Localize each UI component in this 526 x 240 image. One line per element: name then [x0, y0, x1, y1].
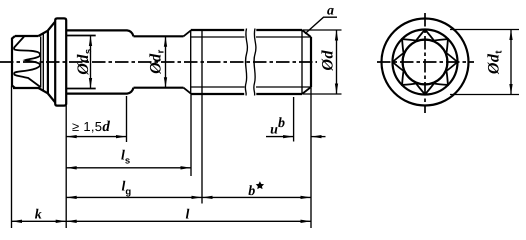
reduced shank dr bottom line [134, 87, 184, 89]
flange base edge [47, 31, 49, 94]
dimension dr [165, 36, 167, 87]
centerline side view [0, 61, 317, 63]
cone intermediate line [42, 34, 44, 91]
dimension ls [66, 167, 191, 169]
extension line bearing face [65, 106, 67, 228]
shank ds inner bottom line [66, 88, 96, 90]
dimension ub [266, 136, 294, 138]
thread run-in chamfer top [184, 31, 191, 37]
shank ds inner top line [66, 35, 96, 37]
flange to washer top slope [48, 22, 55, 31]
dimension d extension lines [303, 29, 342, 31]
flange cone top edge [39, 31, 49, 36]
svg-text:b: b [278, 116, 285, 131]
svg-text:Ød: Ød [320, 50, 337, 72]
thread root bottom line left part [191, 86, 245, 88]
bolt head bottom edge [13, 87, 41, 89]
thread crest top line left part [191, 29, 245, 31]
dimension d [336, 30, 338, 94]
extension line head left face [11, 86, 13, 228]
shank outer top line with fillet to dr [66, 30, 133, 36]
extension line thread start ls [190, 94, 192, 176]
thread start boundary [190, 30, 192, 94]
dimension 1,5d [66, 136, 126, 138]
bolt head 12-point scallop profile [14, 37, 40, 87]
leader a [305, 17, 337, 34]
dimension l [66, 220, 311, 222]
bolt head left face [12, 36, 15, 88]
thread crest bottom line right part [256, 93, 302, 95]
bolt end face [310, 37, 312, 87]
svg-text:b: b [248, 184, 255, 199]
svg-text:≥ 1,5d: ≥ 1,5d [72, 119, 110, 135]
svg-text:l: l [186, 208, 190, 223]
extension line end of ds section [126, 96, 128, 142]
dimension dt [510, 30, 512, 95]
end view inner circle [403, 40, 448, 85]
svg-text:u: u [270, 122, 278, 137]
shank outer bottom line with fillet to dr [66, 88, 133, 94]
thread crest top line right part [256, 29, 302, 31]
break line left [245, 29, 247, 96]
thread end chamfer start line [301, 30, 303, 94]
flange cone bottom edge [39, 88, 49, 93]
dimension ds [90, 36, 92, 89]
thread root bottom line right part [256, 86, 311, 88]
break line right [254, 29, 256, 96]
svg-text:k: k [35, 208, 42, 223]
thread end chamfer bottom [302, 87, 311, 94]
end view head points circle dt [393, 30, 458, 95]
thread root top line left part [191, 36, 245, 38]
washer flange outline [55, 18, 66, 105]
extension line complete thread ub [293, 97, 295, 142]
thread run-in chamfer bottom [184, 88, 191, 94]
end view horizontal centerline [377, 61, 474, 63]
end view 12-point star profile [393, 30, 458, 95]
reduced shank dr top line [134, 35, 184, 37]
end view vertical centerline [424, 13, 426, 113]
end view flange outer circle [382, 19, 469, 106]
flange to washer bottom slope [48, 94, 55, 103]
dimension b* [202, 196, 311, 198]
dimension dt extension lines [450, 29, 519, 31]
extension line bolt end [310, 87, 312, 228]
bolt head top edge [15, 35, 39, 37]
extension line full thread lg [201, 30, 203, 204]
dimension k [12, 220, 67, 222]
thread root top line right part [256, 36, 311, 38]
thread end chamfer top [302, 30, 311, 37]
dimension lg [66, 196, 202, 198]
svg-text:a: a [327, 4, 334, 19]
thread crest bottom line left part [191, 93, 245, 95]
bolt head points base line [40, 37, 42, 88]
